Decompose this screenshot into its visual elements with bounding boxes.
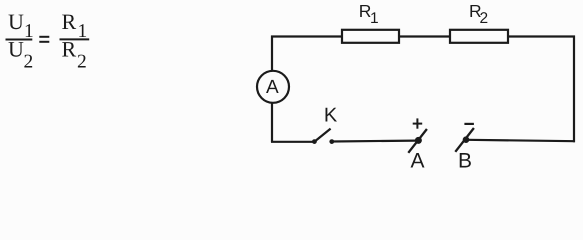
- svg-text:R: R: [62, 9, 77, 34]
- svg-text:K: K: [324, 105, 338, 127]
- svg-text:U: U: [8, 36, 24, 61]
- svg-text:2: 2: [480, 10, 489, 27]
- svg-text:A: A: [410, 150, 424, 173]
- svg-text:B: B: [458, 150, 472, 173]
- svg-text:1: 1: [370, 10, 379, 27]
- svg-text:2: 2: [24, 51, 34, 72]
- svg-text:R: R: [62, 36, 77, 61]
- svg-text:U: U: [8, 9, 24, 34]
- svg-text:A: A: [266, 77, 279, 98]
- svg-text:2: 2: [77, 51, 87, 72]
